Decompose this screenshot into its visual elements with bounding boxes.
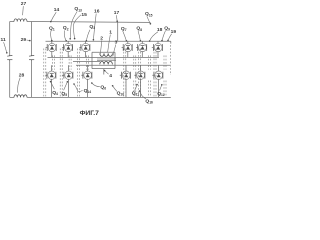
dashed gate control lines col6 [153,49,155,97]
transistor Q9 upper cell col6 [157,41,159,44]
wire left vertical rail (contact 11 branch) [9,22,11,55]
svg-text:4: 4 [109,73,112,79]
transformer right terminal wire [114,52,116,68]
svg-text:Q16: Q16 [145,99,153,105]
dashed gate control lines col5 [137,49,139,97]
transformer left terminal wire [91,52,93,68]
transistor Q4 lower cell col1 [51,65,53,71]
transformer bottom rail [92,68,115,70]
leader for label Q1 [51,31,52,41]
leader for label 29 [27,39,30,42]
transformer core [97,58,116,60]
svg-text:Q12: Q12 [157,91,165,97]
transistor Q2 upper cell col2 [67,41,69,44]
leader for label Q2 [64,30,66,40]
leader for label 16 [93,14,96,40]
wire right vertical rail (contact 29 branch) [31,22,33,55]
leader for label 19 [168,34,172,41]
transistor Q12 lower cell col6 [158,65,160,71]
leader for label Q11 [135,85,137,91]
wire from inductor 27 across top (node 17 feed) [27,21,151,24]
leader for label Q3 [86,30,90,41]
transistor Q11 lower cell col5 [140,65,142,71]
svg-text:Q9: Q9 [164,25,170,31]
leader for label 3 [113,45,116,57]
svg-text:Q4: Q4 [52,90,58,96]
transformer center tap wire [103,69,105,75]
svg-text:11: 11 [1,37,6,43]
contact 29 symbol [29,54,34,57]
svg-text:Q7: Q7 [121,26,127,32]
bottom bus [10,96,14,98]
leader for label 18 [150,32,158,41]
leader for label Q12 [160,85,162,91]
svg-text:Q1: Q1 [49,26,55,32]
leader for label 27 [22,6,25,15]
top bus (node 19) [46,40,171,42]
dashed gate control lines col2 [59,49,61,97]
dashed gate control lines col3 [77,49,79,97]
svg-text:ФИГ.7: ФИГ.7 [80,110,100,117]
svg-text:17: 17 [114,10,120,16]
svg-text:Q2: Q2 [63,25,69,31]
svg-text:14: 14 [54,7,60,13]
transistor Q5 lower cell col2 [68,65,70,71]
leader for label 17 [116,15,117,21]
inductor 27 [14,19,27,22]
transistor Q7 upper cell col4 [127,41,129,44]
mid rail C [76,64,170,66]
dashed control line right edge [170,45,172,75]
svg-text:Q5: Q5 [61,91,67,97]
inductor 28 [14,95,27,98]
svg-text:Q10: Q10 [117,90,125,96]
svg-text:28: 28 [19,72,25,78]
leader for label Q8 [138,31,140,41]
svg-text:29: 29 [21,37,27,43]
leader for label Q6 [92,83,100,87]
transformer secondary winding [100,61,113,64]
svg-text:15: 15 [81,12,87,18]
mid rail A [48,56,160,58]
svg-text:Q8: Q8 [136,26,142,32]
transistor Q1 upper cell col1 [51,41,53,44]
transformer top rail [92,51,115,53]
transistor Q6 lower cell col3 [87,65,89,71]
svg-text:Q3: Q3 [89,24,95,30]
svg-text:3: 3 [115,40,118,46]
leader for label Q7 [123,31,127,41]
leader for label Q14 [74,84,83,92]
dashed gate control lines col4 [123,49,125,97]
transistor Q8 upper cell col5 [141,41,143,44]
leader for label Q13 [70,11,77,38]
dashed gate control lines col1 [43,49,45,97]
transistor Q3 upper cell col3 [85,41,87,44]
leader for label Q5 [64,82,68,90]
leader for label 14 [51,12,56,21]
leader for label 1 [108,35,111,53]
svg-text:Q13: Q13 [74,6,82,12]
leader for label 15 [73,15,81,39]
svg-text:Q6: Q6 [100,84,106,90]
svg-text:16: 16 [94,9,100,15]
svg-text:27: 27 [21,1,27,7]
leader for label 11 [4,42,7,53]
vertical feed wire at x118 [117,22,119,41]
wire top-left segment [10,21,14,23]
leader for label Q16 [140,91,146,99]
leader for label 28 [18,78,21,93]
contact 11 symbol [7,54,12,57]
leader for label Q15 [147,16,151,24]
svg-text:Q15: Q15 [145,11,153,17]
leader for label Q9 [162,30,166,40]
leader for label Q10 [113,86,117,92]
leader for label 4 [105,71,109,75]
transistor Q10 lower cell col4 [125,65,127,71]
leader for label Q4 [51,82,55,90]
leader for label 2 [100,40,102,54]
mid rail B [73,60,100,62]
transformer primary winding [100,53,113,56]
svg-text:1: 1 [109,30,112,36]
